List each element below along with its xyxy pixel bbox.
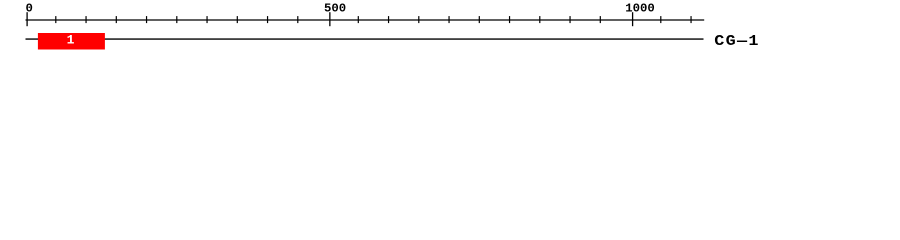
minor tick 350 <box>236 16 238 23</box>
major tick 0 <box>26 12 28 26</box>
minor tick 450 <box>297 16 299 23</box>
track label CG-1 <box>714 33 759 50</box>
minor tick 1050 <box>660 16 662 23</box>
major tick 500 <box>329 12 331 26</box>
minor tick 300 <box>206 16 208 23</box>
minor tick 650 <box>418 16 420 23</box>
feature box (red) <box>38 33 105 50</box>
minor tick 600 <box>388 16 390 23</box>
svg-text:0: 0 <box>26 1 33 15</box>
minor tick 250 <box>176 16 178 23</box>
ruler axis line <box>26 19 705 21</box>
minor tick 1100 <box>690 16 692 23</box>
feature track line <box>26 38 704 40</box>
minor tick 550 <box>357 16 359 23</box>
svg-text:500: 500 <box>324 1 346 15</box>
minor tick 950 <box>599 16 601 23</box>
minor tick 850 <box>539 16 541 23</box>
major tick 1000 <box>632 12 634 26</box>
minor tick 750 <box>478 16 480 23</box>
ruler ticks <box>27 12 691 26</box>
svg-text:1: 1 <box>67 33 75 48</box>
minor tick 400 <box>267 16 269 23</box>
minor tick 800 <box>509 16 511 23</box>
minor tick 900 <box>569 16 571 23</box>
minor tick 100 <box>85 16 87 23</box>
svg-text:1000: 1000 <box>625 1 655 15</box>
minor tick 700 <box>448 16 450 23</box>
svg-text:CG—1: CG—1 <box>714 33 759 50</box>
minor tick 50 <box>55 16 57 23</box>
minor tick 200 <box>146 16 148 23</box>
minor tick 150 <box>115 16 117 23</box>
